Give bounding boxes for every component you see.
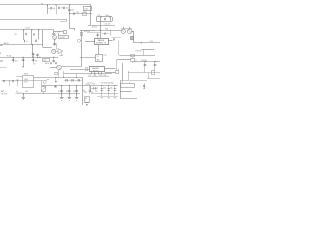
svg-text:REG: REG	[24, 82, 28, 84]
svg-text:C21: C21	[104, 55, 107, 57]
svg-text:R10: R10	[83, 11, 86, 13]
svg-text:C15 470: C15 470	[105, 24, 111, 26]
svg-text:100p: 100p	[105, 15, 109, 17]
svg-text:78L05: 78L05	[24, 73, 29, 75]
svg-text:C8: C8	[33, 63, 35, 65]
svg-text:10u: 10u	[16, 79, 19, 81]
svg-text:TP3 470: TP3 470	[135, 51, 141, 53]
svg-text:C37 100p C38 60p: C37 100p C38 60p	[101, 82, 114, 84]
svg-text:R19: R19	[104, 75, 107, 77]
svg-text:RF OUT: RF OUT	[1, 94, 7, 96]
svg-text:R14: R14	[105, 29, 108, 31]
svg-text:10u: 10u	[71, 10, 74, 12]
svg-text:331: 331	[73, 91, 76, 93]
svg-text:BA1404: BA1404	[98, 39, 104, 42]
svg-text:1u: 1u	[26, 41, 28, 43]
svg-text:471: 471	[58, 91, 61, 93]
svg-text:C25: C25	[99, 75, 102, 77]
svg-text:C23: C23	[89, 75, 92, 77]
svg-text:22u: 22u	[15, 60, 18, 62]
svg-text:C3: C3	[58, 32, 60, 34]
svg-text:38k: 38k	[97, 59, 100, 61]
svg-text:103: 103	[66, 8, 69, 10]
svg-text:10.7M: 10.7M	[60, 37, 65, 39]
svg-text:104: 104	[35, 60, 38, 62]
svg-text:C40: C40	[25, 91, 28, 93]
svg-text:10p: 10p	[95, 91, 98, 93]
svg-text:R5 10k: R5 10k	[7, 56, 12, 58]
svg-text:C33: C33	[92, 84, 95, 86]
svg-text:RF: RF	[85, 98, 87, 100]
svg-text:LPF: LPF	[43, 60, 46, 62]
svg-text:22p: 22p	[76, 11, 79, 13]
svg-text:4.7k: 4.7k	[97, 15, 100, 17]
svg-text:104: 104	[52, 8, 55, 10]
svg-text:C36: C36	[90, 92, 93, 94]
svg-text:C24: C24	[94, 75, 97, 77]
svg-text:18p: 18p	[110, 87, 113, 89]
svg-text:R12 1k: R12 1k	[92, 27, 97, 29]
svg-text:33p: 33p	[103, 87, 106, 89]
svg-text:102: 102	[66, 91, 69, 93]
svg-text:L1: L1	[16, 91, 18, 93]
svg-text:R2: R2	[15, 34, 17, 36]
svg-text:7805: 7805	[24, 79, 28, 81]
svg-text:R8 1k: R8 1k	[45, 63, 49, 65]
svg-text:C1 104: C1 104	[25, 28, 30, 30]
svg-text:C35: C35	[84, 92, 87, 94]
svg-text:STEREO TX: STEREO TX	[96, 43, 106, 45]
svg-text:X1: X1	[97, 56, 99, 58]
svg-text:C: C	[85, 100, 87, 102]
svg-text:ANT: ANT	[1, 90, 4, 93]
